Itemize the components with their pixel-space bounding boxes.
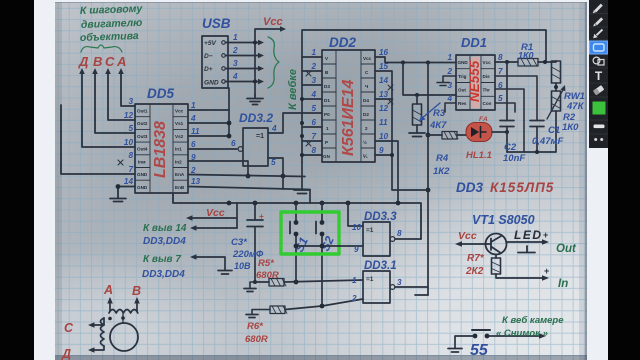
IC DD1 NE555 bbox=[456, 55, 495, 110]
svg-text:14: 14 bbox=[124, 177, 134, 186]
wire Vcc top run bbox=[302, 30, 546, 62]
svg-text:4К7: 4К7 bbox=[429, 120, 447, 131]
svg-text:Ч: Ч bbox=[365, 84, 368, 89]
svg-text:DD2: DD2 bbox=[329, 35, 356, 50]
wire R6 to DD3.1 pin2 bbox=[285, 299, 363, 310]
wire DD1 pin5 bbox=[495, 103, 515, 112]
wire motor D arrow bbox=[92, 346, 104, 350]
svg-text:47К: 47К bbox=[566, 101, 585, 112]
svg-text:8: 8 bbox=[498, 53, 503, 62]
wire S1 to DD3.3 pin9 bbox=[296, 245, 363, 247]
svg-text:13: 13 bbox=[379, 90, 389, 99]
USB pin numbers bbox=[232, 33, 238, 81]
svg-text:4: 4 bbox=[446, 94, 452, 103]
svg-text:6: 6 bbox=[311, 118, 316, 127]
svg-text:7: 7 bbox=[311, 132, 316, 141]
svg-text:In: In bbox=[558, 278, 568, 290]
svg-text:10nF: 10nF bbox=[503, 153, 525, 164]
brace to webcam bbox=[268, 37, 279, 88]
svg-text:С1: С1 bbox=[548, 125, 560, 136]
svg-text:10: 10 bbox=[379, 132, 389, 141]
svg-text:Out: Out bbox=[458, 88, 466, 93]
svg-text:4: 4 bbox=[232, 72, 238, 81]
svg-text:К шаговому: К шаговому bbox=[80, 3, 144, 17]
wire phase B bbox=[108, 72, 135, 120]
gate DD3.1 bbox=[363, 271, 390, 303]
motor rotor bbox=[110, 323, 138, 351]
resistor R2 bbox=[552, 91, 561, 111]
svg-text:7: 7 bbox=[128, 165, 133, 174]
svg-text:Vcc: Vcc bbox=[458, 230, 477, 242]
gate DD3.2 bbox=[243, 128, 268, 166]
svg-text:1К2: 1К2 bbox=[433, 166, 450, 177]
wire DD5 pin9 bbox=[188, 161, 248, 176]
wire pin14 arrow bbox=[195, 227, 237, 229]
svg-text:Out4: Out4 bbox=[137, 147, 148, 152]
svg-text:Trig: Trig bbox=[458, 74, 467, 79]
svg-text:9: 9 bbox=[354, 245, 359, 254]
resistor RW1 bbox=[552, 61, 561, 83]
wire phase A bbox=[82, 72, 135, 147]
svg-text:55: 55 bbox=[470, 342, 489, 359]
svg-text:DD1: DD1 bbox=[461, 35, 487, 50]
capacitor C2 bbox=[500, 62, 514, 152]
wire DD3.3 pin10 bbox=[348, 203, 363, 226]
svg-text:In2: In2 bbox=[175, 160, 182, 165]
svg-text:4: 4 bbox=[190, 114, 196, 123]
svg-text:D2: D2 bbox=[363, 112, 369, 117]
ground DD5 bbox=[110, 199, 126, 202]
svg-text:14: 14 bbox=[379, 76, 389, 85]
IC DD2 K561IE14 bbox=[322, 50, 375, 162]
svg-text:объектива: объектива bbox=[80, 30, 139, 44]
svg-text:R5*: R5* bbox=[258, 258, 275, 269]
wire button to camera bbox=[489, 335, 540, 337]
svg-text:2К2: 2К2 bbox=[465, 266, 484, 277]
svg-text:« Снимок »: « Снимок » bbox=[496, 328, 548, 339]
wire DD5 pin13 to bus bbox=[188, 187, 310, 204]
svg-text:16: 16 bbox=[379, 48, 389, 57]
wire phase C bbox=[95, 72, 135, 133]
resistor R5 bbox=[253, 280, 257, 284]
svg-text:5: 5 bbox=[271, 158, 276, 167]
node labels D B C A bbox=[78, 54, 126, 69]
capacitor C3 bbox=[247, 203, 263, 282]
svg-text:=1: =1 bbox=[256, 133, 264, 140]
svg-text:GND: GND bbox=[204, 80, 219, 87]
tool pencil bbox=[593, 5, 602, 14]
svg-text:10: 10 bbox=[124, 138, 134, 147]
svg-text:1К0: 1К0 bbox=[562, 122, 579, 133]
svg-text:К155ЛП5: К155ЛП5 bbox=[490, 180, 554, 195]
IC DD5 LB1838 bbox=[135, 104, 188, 193]
ground DD2 rail bbox=[301, 162, 303, 190]
wire collector Out bbox=[506, 241, 544, 243]
wire DD2 pin10 to bus bbox=[375, 141, 398, 203]
svg-text:D+: D+ bbox=[204, 66, 213, 73]
wire R7 to In bbox=[496, 274, 544, 278]
wire R2 bottom bbox=[507, 111, 556, 152]
svg-text:R3: R3 bbox=[433, 108, 446, 119]
svg-text:+: + bbox=[259, 212, 264, 221]
wire power bus bbox=[173, 194, 421, 239]
svg-text:2: 2 bbox=[310, 62, 316, 71]
switch S1 bbox=[295, 203, 297, 282]
wire DD5 pin6 to DD3.2 bbox=[188, 148, 237, 150]
svg-text:ЕnА: ЕnА bbox=[175, 172, 185, 177]
tool rectangle selected blue bbox=[589, 41, 608, 55]
svg-text:HL1.1: HL1.1 bbox=[466, 150, 492, 161]
svg-text:В: В bbox=[132, 284, 141, 298]
wire DD5 pin11 bbox=[188, 135, 229, 137]
svg-text:11: 11 bbox=[191, 127, 200, 136]
wire DD5 pin4 bbox=[188, 110, 229, 136]
svg-text:2: 2 bbox=[446, 67, 452, 76]
svg-text:1: 1 bbox=[447, 53, 452, 62]
svg-text:T: T bbox=[595, 69, 603, 83]
svg-text:8: 8 bbox=[397, 229, 402, 238]
svg-text:680R: 680R bbox=[245, 334, 268, 345]
svg-text:P0: P0 bbox=[324, 112, 330, 117]
DD1 pin numbers bbox=[446, 53, 452, 103]
wire R3 top bbox=[403, 63, 456, 96]
wire DD1 pin8 Vcc bbox=[495, 61, 518, 63]
wire DD3.1 stub bbox=[415, 294, 428, 296]
svg-text:+: + bbox=[544, 266, 549, 276]
svg-text:=1: =1 bbox=[366, 227, 374, 234]
transistor VT1 bbox=[486, 234, 507, 255]
svg-text:½: ½ bbox=[363, 139, 367, 145]
annotation green box bbox=[281, 212, 339, 254]
svg-text:USB: USB bbox=[202, 16, 231, 31]
resistor R7 bbox=[495, 255, 497, 259]
svg-text:3: 3 bbox=[311, 76, 316, 85]
svg-text:В: В bbox=[93, 54, 102, 69]
svg-text:LB1838: LB1838 bbox=[152, 121, 169, 178]
svg-text:GND: GND bbox=[137, 172, 148, 177]
svg-text:Vs2: Vs2 bbox=[175, 134, 184, 139]
connector USB bbox=[202, 36, 228, 88]
winding horizontal bbox=[109, 310, 138, 314]
svg-text:Dis: Dis bbox=[483, 74, 491, 79]
svg-text:двигателю: двигателю bbox=[81, 17, 143, 31]
wire DD1 pin2 stub bbox=[443, 76, 456, 82]
tool more dots bbox=[594, 138, 597, 141]
ground Out bbox=[518, 246, 535, 253]
svg-text:1: 1 bbox=[191, 101, 196, 110]
svg-text:А: А bbox=[116, 54, 126, 69]
wire divider mid bbox=[555, 83, 557, 91]
svg-text:DD3,DD4: DD3,DD4 bbox=[143, 236, 186, 247]
svg-text:R7*: R7* bbox=[467, 253, 485, 264]
wire DD2 pin9 bbox=[375, 154, 392, 156]
svg-text:GND: GND bbox=[137, 185, 148, 190]
wire DD5 pin1 bbox=[188, 88, 229, 110]
resistor R6 bbox=[252, 310, 270, 315]
svg-text:DD3,DD4: DD3,DD4 bbox=[142, 269, 185, 280]
svg-text:FА: FА bbox=[479, 116, 488, 123]
svg-text:К561ИЕ14: К561ИЕ14 bbox=[340, 79, 357, 156]
svg-text:4: 4 bbox=[310, 90, 316, 99]
svg-text:=1: =1 bbox=[366, 276, 374, 283]
svg-text:Vcc: Vcc bbox=[483, 60, 492, 65]
svg-text:DD5: DD5 bbox=[147, 86, 174, 101]
svg-text:VT1 S8050: VT1 S8050 bbox=[472, 213, 535, 227]
svg-text:Д: Д bbox=[78, 54, 89, 69]
svg-text:7: 7 bbox=[498, 67, 503, 76]
svg-text:DD3: DD3 bbox=[456, 180, 483, 195]
svg-text:С: С bbox=[64, 321, 74, 335]
resistor R4 bbox=[442, 132, 457, 140]
svg-text:⅟₀: ⅟₀ bbox=[363, 153, 368, 159]
svg-text:6: 6 bbox=[231, 139, 236, 148]
tool marker bbox=[593, 18, 602, 26]
svg-text:D3: D3 bbox=[324, 84, 330, 89]
svg-text:3: 3 bbox=[233, 59, 238, 68]
svg-text:13: 13 bbox=[191, 177, 201, 186]
svg-text:R6*: R6* bbox=[247, 321, 264, 332]
wire DD1 pin6 bbox=[495, 89, 524, 152]
svg-text:8: 8 bbox=[128, 151, 133, 160]
svg-text:ЕnВ: ЕnВ bbox=[175, 185, 185, 190]
svg-text:К веб камере: К веб камере bbox=[502, 315, 564, 326]
svg-text:2: 2 bbox=[351, 294, 357, 303]
brace over DBCA bbox=[81, 45, 122, 52]
svg-text:Vs1: Vs1 bbox=[175, 121, 184, 126]
wire R5 to DD3.1 pin1 bbox=[284, 280, 363, 282]
wire Vcc feed bbox=[255, 29, 280, 95]
svg-text:12: 12 bbox=[379, 104, 389, 113]
wire DD2 pin16 to DD1 bbox=[375, 57, 456, 63]
svg-text:6: 6 bbox=[191, 140, 196, 149]
svg-text:In1: In1 bbox=[175, 147, 182, 152]
svg-text:Д: Д bbox=[61, 347, 71, 360]
winding vertical bbox=[101, 318, 105, 346]
toolbar panel bbox=[589, 0, 608, 148]
svg-text:Con: Con bbox=[483, 101, 492, 106]
svg-text:А: А bbox=[103, 283, 113, 297]
wire DD5 pin14 to ground bbox=[118, 187, 135, 199]
DD2 pin numbers bbox=[310, 48, 316, 155]
DD3.3 output bbox=[390, 237, 395, 242]
svg-text:D4: D4 bbox=[363, 98, 369, 103]
wire USB D+ bbox=[226, 68, 259, 70]
R3 adjust arrow bbox=[421, 103, 440, 119]
svg-text:P: P bbox=[325, 140, 328, 145]
svg-text:Out3: Out3 bbox=[137, 134, 148, 139]
wire motor C arrow bbox=[92, 318, 104, 325]
svg-text:2: 2 bbox=[190, 166, 196, 175]
svg-text:8: 8 bbox=[311, 146, 316, 155]
wire R1 to divider bbox=[538, 61, 556, 62]
wire motor B arrow bbox=[136, 300, 138, 311]
wire DD2 left rail bbox=[302, 57, 322, 162]
resistor R1 bbox=[518, 59, 538, 67]
svg-text:1: 1 bbox=[233, 33, 238, 42]
svg-text:GN: GN bbox=[323, 154, 331, 159]
svg-text:5: 5 bbox=[311, 104, 316, 113]
ground R3 bbox=[409, 133, 425, 137]
ground USB bbox=[247, 95, 263, 105]
svg-text:1: 1 bbox=[326, 126, 329, 131]
DD3.1 output bbox=[390, 285, 395, 290]
svg-text:5: 5 bbox=[498, 94, 503, 103]
svg-text:12: 12 bbox=[124, 111, 134, 120]
junction bbox=[253, 41, 257, 45]
svg-text:3: 3 bbox=[128, 97, 133, 106]
resistor R3 bbox=[413, 104, 422, 125]
pot wiper arrow bbox=[547, 88, 564, 119]
wire DD1 pin4 stub bbox=[445, 103, 456, 112]
svg-text:К выв 14: К выв 14 bbox=[143, 223, 187, 234]
svg-text:К вебке: К вебке bbox=[287, 69, 299, 110]
wire USB GND bbox=[226, 81, 259, 83]
svg-text:2: 2 bbox=[232, 46, 238, 55]
wire Vcc arrow bbox=[191, 203, 237, 228]
svg-text:2: 2 bbox=[365, 126, 368, 131]
svg-text:0,47мF: 0,47мF bbox=[532, 136, 564, 147]
wire base to Vcc bbox=[460, 243, 491, 245]
svg-text:11: 11 bbox=[379, 118, 388, 127]
svg-text:С: С bbox=[105, 54, 115, 69]
tool line thickness bbox=[594, 125, 605, 129]
svg-text:К выв 7: К выв 7 bbox=[143, 254, 181, 265]
tool arrow bbox=[593, 30, 602, 39]
junction bbox=[253, 80, 257, 84]
LED HL1 bbox=[466, 123, 492, 142]
wire DD3.2 out4 bbox=[268, 113, 302, 133]
svg-text:1: 1 bbox=[311, 48, 316, 57]
gate DD3.3 bbox=[363, 222, 390, 256]
capacitor C1 bbox=[530, 121, 544, 153]
svg-text:+: + bbox=[543, 230, 548, 240]
ground C3 bbox=[250, 282, 255, 288]
wire pin7 arrow to ground bbox=[195, 257, 225, 270]
wire LED out bbox=[492, 131, 507, 133]
svg-text:10В: 10В bbox=[234, 261, 251, 271]
svg-text:Res: Res bbox=[458, 101, 467, 106]
svg-text:DD3.2: DD3.2 bbox=[239, 111, 273, 125]
svg-text:Vcc: Vcc bbox=[175, 109, 184, 114]
svg-text:Inм: Inм bbox=[138, 160, 146, 165]
button S5 bbox=[473, 334, 478, 339]
wire USB D- bbox=[226, 55, 259, 57]
svg-text:Out2: Out2 bbox=[137, 121, 148, 126]
svg-text:+5V: +5V bbox=[204, 40, 217, 47]
svg-text:Vcc: Vcc bbox=[363, 56, 372, 61]
wire motor A arrow bbox=[109, 300, 111, 311]
svg-text:Out1: Out1 bbox=[137, 109, 148, 114]
note "К шаговому двигателю объектива" bbox=[80, 3, 144, 44]
svg-text:680R: 680R bbox=[256, 270, 279, 281]
svg-text:5: 5 bbox=[128, 124, 133, 133]
wire DD2 pin12 rail bbox=[375, 71, 428, 190]
DD5 pin numbers bbox=[124, 97, 134, 186]
svg-text:С2: С2 bbox=[504, 142, 517, 153]
pin8 unused mark bbox=[118, 160, 123, 165]
svg-text:LED: LED bbox=[514, 228, 543, 242]
wire left rail bbox=[61, 105, 135, 174]
svg-text:9: 9 bbox=[379, 146, 384, 155]
wire button left ground bbox=[455, 336, 473, 348]
svg-text:NE555: NE555 bbox=[467, 60, 482, 102]
svg-text:1К0: 1К0 bbox=[518, 51, 534, 61]
svg-text:D−: D− bbox=[204, 53, 213, 60]
svg-text:3: 3 bbox=[397, 278, 402, 287]
svg-text:4: 4 bbox=[271, 124, 277, 133]
wire DD1 pin7 bbox=[495, 76, 537, 120]
tool shapes bbox=[593, 57, 604, 65]
svg-text:Thr: Thr bbox=[483, 88, 491, 93]
tool color green swatch bbox=[593, 102, 606, 115]
wire USB +5V bbox=[226, 42, 259, 44]
svg-text:R4: R4 bbox=[436, 153, 449, 164]
svg-text:10: 10 bbox=[352, 223, 362, 232]
svg-text:Vcc: Vcc bbox=[263, 16, 283, 28]
tool eraser bbox=[593, 85, 604, 95]
svg-text:1: 1 bbox=[352, 276, 357, 285]
wire phase D bbox=[121, 72, 135, 106]
wire R4 rail bbox=[427, 63, 429, 296]
wire DD3.2 out5 bbox=[268, 158, 283, 189]
svg-text:Out: Out bbox=[556, 243, 577, 255]
unused pin marks DD2 bbox=[306, 71, 393, 146]
switch S2 bbox=[321, 203, 323, 306]
svg-text:D1: D1 bbox=[324, 98, 330, 103]
wire DD5 pin2 bbox=[188, 175, 305, 177]
svg-text:С3*: С3* bbox=[231, 237, 248, 248]
